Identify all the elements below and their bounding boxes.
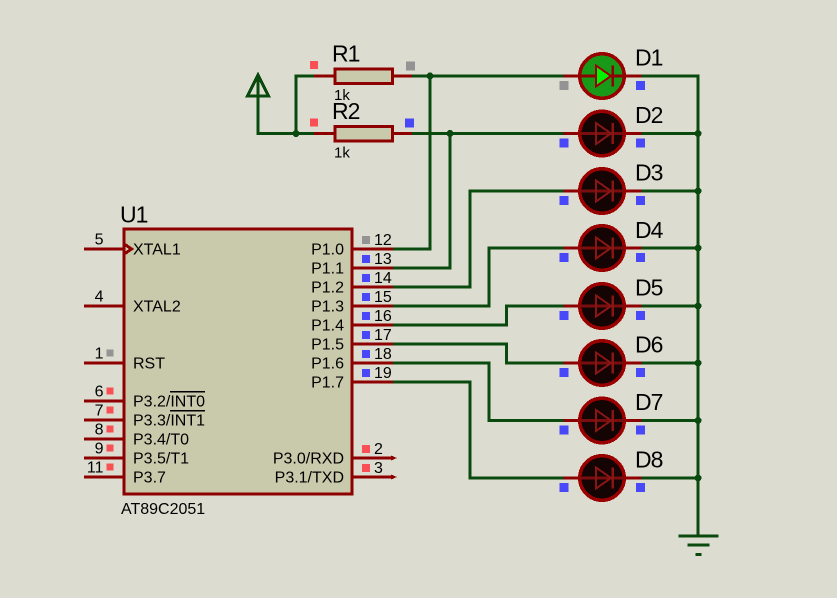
junction: bus / D4 [695, 245, 702, 252]
svg-text:U1: U1 [120, 202, 148, 228]
svg-text:15: 15 [374, 289, 392, 306]
logic state square pin 13 [362, 255, 370, 263]
wire: pin17 P1.5 to D6 [393, 344, 564, 363]
svg-text:D8: D8 [635, 447, 663, 473]
svg-text:P1.6: P1.6 [311, 356, 344, 373]
pin 4 XTAL2 line [84, 305, 124, 308]
logic state square pin 14 [362, 274, 370, 282]
svg-text:R1: R1 [332, 41, 360, 67]
svg-text:P1.0: P1.0 [311, 242, 344, 259]
logic state square D8 right [636, 483, 645, 492]
logic state square D6 left [560, 368, 569, 377]
junction: bus / D6 [695, 360, 702, 367]
logic state square pin 9 [107, 445, 114, 452]
svg-text:P3.0/RXD: P3.0/RXD [273, 451, 344, 468]
svg-text:XTAL1: XTAL1 [133, 242, 181, 259]
svg-text:14: 14 [374, 270, 392, 287]
resistor R1 [335, 69, 393, 84]
LED D4 [564, 226, 642, 271]
svg-text:P1.2: P1.2 [311, 280, 344, 297]
svg-text:P3.4/T0: P3.4/T0 [133, 432, 189, 449]
svg-text:P3.1/TXD: P3.1/TXD [275, 470, 344, 487]
wire: R2 right to D2 row [412, 132, 564, 135]
resistor R1 pins [314, 75, 412, 78]
wire: R1 left feed [296, 76, 314, 134]
wire: pin13 P1.1 to D2 row [393, 134, 450, 269]
logic state square D5 right [636, 311, 645, 320]
svg-text:13: 13 [374, 251, 392, 268]
svg-text:D4: D4 [635, 217, 664, 243]
junction: bus / D8 [695, 475, 702, 482]
pin 17 P1.5 line [352, 343, 393, 346]
junction: bus / D3 [695, 188, 702, 195]
logic state square R1 left [310, 61, 318, 69]
svg-text:XTAL2: XTAL2 [133, 299, 181, 316]
svg-text:P3.2/INT0: P3.2/INT0 [133, 394, 205, 411]
ground [679, 536, 719, 555]
logic state square D3 right [636, 196, 645, 205]
svg-text:11: 11 [87, 460, 104, 477]
LED D2 [564, 111, 642, 156]
power symbol VCC arrow [248, 75, 297, 134]
pin 8 P3.4 line [84, 438, 124, 441]
svg-text:19: 19 [374, 365, 392, 382]
wire: D6 right [641, 362, 698, 365]
logic state square pin 8 [107, 426, 114, 433]
logic state square pin 11 [107, 464, 114, 471]
logic state square R1 right [406, 62, 415, 71]
pin 2 arrow tip [391, 456, 397, 461]
wire: pin18 P1.6 to D7 [393, 363, 564, 421]
svg-text:P1.5: P1.5 [311, 337, 344, 354]
logic state square pin 12 [362, 236, 370, 244]
logic state square D2 left [560, 139, 569, 148]
wire: pin12 P1.0 to D1 row [393, 76, 430, 249]
logic state square pin 16 [362, 312, 370, 320]
resistor R2 [335, 127, 393, 142]
svg-text:P1.7: P1.7 [311, 375, 344, 392]
LED D5 [564, 284, 642, 329]
junction: bus / D2 [695, 130, 702, 137]
wire: pin19 P1.7 to D8 [393, 382, 564, 478]
pin 12 P1.0 line [352, 248, 393, 251]
svg-text:4: 4 [95, 289, 104, 306]
pin 16 P1.4 line [352, 324, 393, 327]
svg-text:P3.7: P3.7 [133, 470, 166, 487]
wire: pin16 P1.4 to D5 [393, 306, 564, 325]
pin 15 P1.3 line [352, 305, 393, 308]
wire: cathode bus with ground drop [641, 76, 698, 535]
svg-text:P1.3: P1.3 [311, 299, 344, 316]
svg-text:P1.1: P1.1 [311, 261, 344, 278]
wire: D4 right [641, 247, 698, 250]
svg-text:D7: D7 [635, 389, 663, 415]
pin 5 XTAL1 line [84, 248, 124, 251]
svg-text:RST: RST [133, 356, 165, 373]
svg-text:17: 17 [374, 327, 392, 344]
chip U1 body [124, 229, 352, 494]
junction: P1.1 / R2 / D2 [447, 130, 454, 137]
wire: R2 left feed [296, 132, 314, 135]
logic state square R2 left [310, 119, 318, 127]
svg-text:P3.5/T1: P3.5/T1 [133, 451, 189, 468]
logic state square D2 right [636, 139, 645, 148]
wire: D7 right [641, 419, 698, 422]
LED D1 (lit) [564, 54, 642, 99]
wire: D5 right [641, 305, 698, 308]
LED D6 [564, 341, 642, 386]
junction: bus / D5 [695, 303, 702, 310]
pin 6 P3.2 line [84, 400, 124, 403]
logic state square D6 right [636, 368, 645, 377]
svg-text:6: 6 [95, 384, 104, 401]
svg-text:D2: D2 [635, 102, 663, 128]
logic state square pin 15 [362, 293, 370, 301]
svg-text:P3.3/INT1: P3.3/INT1 [133, 413, 205, 430]
svg-text:D3: D3 [635, 160, 663, 186]
svg-text:1: 1 [95, 346, 104, 363]
pin 18 P1.6 line [352, 362, 393, 365]
LED D3 [564, 169, 642, 214]
logic state square D3 left [560, 196, 569, 205]
pin 3 P3.1/TXD line [352, 476, 391, 479]
wire: pin14 P1.2 to D3 [393, 191, 564, 287]
logic state square D7 right [636, 426, 645, 435]
wire: D2 right [641, 132, 698, 135]
wire: pin15 P1.3 to D4 [393, 248, 564, 306]
wire: D3 right [641, 190, 698, 193]
logic state square pin 2 [362, 445, 370, 453]
pin 14 P1.2 line [352, 286, 393, 289]
logic state square R2 right [405, 119, 414, 128]
svg-text:D1: D1 [635, 45, 663, 71]
logic state square pin 19 [362, 369, 370, 377]
LED D8 [564, 456, 642, 501]
wire: R1 right to D1 row [412, 75, 564, 78]
logic state square pin 17 [362, 331, 370, 339]
svg-text:AT89C2051: AT89C2051 [121, 501, 205, 518]
svg-text:12: 12 [374, 232, 392, 249]
svg-text:7: 7 [95, 403, 104, 420]
svg-text:P1.4: P1.4 [311, 318, 344, 335]
pin 19 P1.7 line [352, 381, 393, 384]
logic state square D1 left [560, 81, 569, 90]
svg-text:D5: D5 [635, 275, 663, 301]
svg-text:D6: D6 [635, 332, 663, 358]
pin 7 P3.3 line [84, 419, 124, 422]
svg-text:9: 9 [95, 441, 104, 458]
svg-text:2: 2 [374, 441, 383, 458]
logic state square D4 left [560, 253, 569, 262]
logic state square D8 left [560, 483, 569, 492]
logic state square D4 right [636, 253, 645, 262]
pin 11 P3.7 line [84, 476, 124, 479]
logic state square pin 1 [107, 350, 114, 357]
logic state square pin 18 [362, 350, 370, 358]
logic state square pin 6 [107, 388, 114, 395]
svg-text:18: 18 [374, 346, 392, 363]
junction: bus / D7 [695, 417, 702, 424]
LED D7 [564, 398, 642, 443]
XTAL1 clock input arrow [125, 245, 132, 254]
svg-text:8: 8 [95, 422, 104, 439]
pin 3 arrow tip [391, 475, 397, 480]
pin 2 P3.0/RXD line [352, 457, 391, 460]
logic state square D7 left [560, 426, 569, 435]
junction: VCC / R2 feed [293, 130, 300, 137]
pin 13 P1.1 line [352, 267, 393, 270]
pin 9 P3.5 line [84, 457, 124, 460]
logic state square pin 7 [107, 407, 114, 414]
pin 1 RST line [84, 362, 124, 365]
svg-text:3: 3 [374, 460, 383, 477]
resistor R2 pins [314, 132, 412, 135]
svg-text:5: 5 [95, 232, 104, 249]
logic state square D5 left [560, 311, 569, 320]
svg-text:1k: 1k [334, 145, 350, 162]
logic state square D1 right [636, 81, 645, 90]
svg-text:16: 16 [374, 308, 392, 325]
junction: P1.0 / R1 / D1 [427, 73, 434, 80]
svg-text:R2: R2 [332, 98, 360, 124]
wire: D8 right [641, 477, 698, 480]
logic state square pin 3 [362, 464, 370, 472]
